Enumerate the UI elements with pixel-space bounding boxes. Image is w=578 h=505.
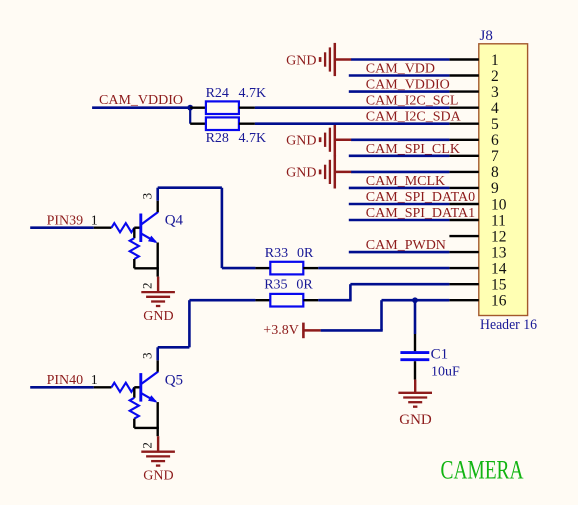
wire CAM_VDDIO <box>92 106 190 109</box>
pin 5 of J8 <box>449 116 499 133</box>
pin 1 of Q4 (base) <box>94 226 112 228</box>
pin 7 of J8 <box>449 148 499 165</box>
wire PIN40 <box>30 386 93 389</box>
svg-text:0R: 0R <box>297 246 314 261</box>
wire junction to C1 <box>414 300 417 334</box>
pin 16 of J8 <box>449 293 506 310</box>
svg-text:2: 2 <box>139 442 154 449</box>
pin 13 of J8 <box>449 244 506 261</box>
wire pin13 net CAM_PWDN <box>349 251 450 254</box>
base stub of Q5 <box>134 386 139 388</box>
svg-text:GND: GND <box>399 412 432 428</box>
power ground GND (pin 8) <box>286 155 351 188</box>
base resistor zigzag of Q4 <box>112 223 135 232</box>
ground symbol below Q5 <box>141 436 175 483</box>
wire R33 to pin14 <box>318 267 449 270</box>
pin 3 of Q5 (collector) <box>156 360 158 371</box>
svg-text:4.7K: 4.7K <box>239 131 267 146</box>
pin 1 of R33 <box>255 267 270 269</box>
svg-text:Q4: Q4 <box>165 213 184 229</box>
pin 2 of Q5 (emitter) <box>156 402 158 436</box>
resistor R33 <box>270 262 303 275</box>
svg-text:R33: R33 <box>265 246 288 261</box>
base stub of Q4 <box>134 226 139 228</box>
resistor R28 <box>206 117 239 130</box>
wire R28 to pin5 net CAM_I2C_SDA <box>255 122 450 125</box>
pin 9 of J8 <box>449 180 499 197</box>
resistor R24 <box>206 101 239 114</box>
pin 6 of J8 <box>449 132 499 149</box>
wire PIN39 <box>30 226 93 229</box>
svg-text:R24: R24 <box>206 86 229 101</box>
svg-text:8: 8 <box>491 164 499 181</box>
resistor R35 <box>270 294 303 307</box>
power ground GND (pin 1) <box>286 43 351 76</box>
svg-text:CAM_VDDIO: CAM_VDDIO <box>99 93 183 108</box>
wire pin9 net CAM_MCLK <box>349 187 450 190</box>
svg-text:GND: GND <box>143 309 173 324</box>
svg-text:3: 3 <box>140 193 155 200</box>
bottom link wire of Q5 <box>134 427 159 429</box>
svg-text:GND: GND <box>286 166 316 181</box>
pin 15 of J8 <box>449 277 506 294</box>
svg-text:CAMERA: CAMERA <box>441 455 524 484</box>
pin 1 of C1 <box>414 334 416 351</box>
svg-text:R28: R28 <box>206 131 229 146</box>
svg-text:GND: GND <box>286 53 316 68</box>
svg-text:PIN39: PIN39 <box>47 213 84 228</box>
wire R24 to pin4 net CAM_I2C_SCL <box>255 106 450 109</box>
wire pin8 to GND <box>351 171 449 174</box>
wire pin16 row <box>382 299 450 302</box>
svg-text:3: 3 <box>491 84 499 101</box>
pin 10 of J8 <box>449 196 506 213</box>
pull-down stub of Q4 <box>133 228 135 239</box>
power port +3.8V <box>263 323 320 339</box>
ground symbol below C1 <box>398 380 432 428</box>
svg-text:CAM_PWDN: CAM_PWDN <box>366 238 446 253</box>
wire junction down to R28 <box>189 108 191 124</box>
pin 3 of J8 <box>449 84 499 101</box>
svg-text:12: 12 <box>491 228 507 245</box>
pin 2 of C1 <box>414 361 416 379</box>
wire pin2 net CAM_VDD <box>349 74 450 77</box>
svg-text:+3.8V: +3.8V <box>263 323 299 338</box>
zigzag to bottom stub of Q4 <box>133 259 135 268</box>
pin 2 of R35 <box>303 299 318 301</box>
connector J8 body <box>479 44 528 316</box>
svg-text:7: 7 <box>491 148 499 165</box>
svg-text:R35: R35 <box>264 278 287 293</box>
svg-text:0R: 0R <box>296 278 313 293</box>
transistor Q5 <box>141 372 158 403</box>
wire pin6 to GND <box>351 139 449 142</box>
svg-text:1: 1 <box>491 52 499 69</box>
wire R35 right <box>318 299 350 302</box>
pin 2 of R28 <box>239 122 255 124</box>
pin 11 of J8 <box>449 212 506 229</box>
svg-text:16: 16 <box>491 293 507 310</box>
base-emitter resistor zigzag of Q4 <box>130 238 139 259</box>
svg-text:J8: J8 <box>480 28 493 44</box>
wire pin7 net CAM_SPI_CLK <box>349 155 450 158</box>
collector wire of Q5 <box>158 300 256 360</box>
wire to pin15 <box>350 283 449 286</box>
pin 1 of J8 <box>449 52 498 69</box>
svg-text:C1: C1 <box>431 347 449 363</box>
capacitor C1 <box>400 353 429 360</box>
wire pin1 to GND <box>351 58 449 61</box>
pin 2 of Q4 (emitter) <box>156 243 158 277</box>
svg-text:2: 2 <box>139 283 154 290</box>
zigzag to bottom stub of Q5 <box>133 419 135 428</box>
svg-text:10: 10 <box>491 196 507 213</box>
svg-text:CAM_MCLK: CAM_MCLK <box>366 174 445 189</box>
svg-text:1: 1 <box>91 213 98 228</box>
svg-text:CAM_VDDIO: CAM_VDDIO <box>366 78 450 93</box>
svg-text:5: 5 <box>491 116 499 133</box>
svg-text:CAM_SPI_CLK: CAM_SPI_CLK <box>366 142 460 157</box>
wire +3.8V row <box>321 329 383 332</box>
power ground GND (pin 6) <box>286 123 351 156</box>
ground symbol below Q4 <box>141 277 175 324</box>
wire pin11 net CAM_SPI_DATA1 <box>349 219 450 222</box>
pin 2 of R24 <box>239 106 255 108</box>
svg-text:PIN40: PIN40 <box>47 373 84 388</box>
svg-text:GND: GND <box>286 134 316 149</box>
svg-text:2: 2 <box>491 68 499 85</box>
svg-text:GND: GND <box>143 469 173 484</box>
svg-text:3: 3 <box>140 353 155 360</box>
svg-text:15: 15 <box>491 277 507 294</box>
wire pin3 net CAM_VDDIO <box>349 90 450 93</box>
svg-text:CAM_SPI_DATA0: CAM_SPI_DATA0 <box>366 190 475 205</box>
wire down to +3.8V row <box>380 300 383 330</box>
svg-text:1: 1 <box>91 373 98 388</box>
wire jog up to pin15 <box>349 284 352 301</box>
bottom link wire of Q4 <box>134 267 159 269</box>
svg-text:4: 4 <box>491 100 499 117</box>
svg-text:9: 9 <box>491 180 499 197</box>
base resistor zigzag of Q5 <box>112 383 135 392</box>
pin 1 of R24 <box>190 106 206 108</box>
pull-down stub of Q5 <box>133 387 135 398</box>
svg-text:CAM_SPI_DATA1: CAM_SPI_DATA1 <box>366 206 475 221</box>
svg-text:Header 16: Header 16 <box>480 317 537 333</box>
pin 4 of J8 <box>449 100 499 117</box>
pin 3 of Q4 (collector) <box>156 201 158 212</box>
transistor Q4 <box>141 212 158 243</box>
base-emitter resistor zigzag of Q5 <box>130 398 139 419</box>
pin 12 of J8 <box>449 228 506 245</box>
collector wire of Q4 <box>158 188 256 268</box>
svg-text:10uF: 10uF <box>431 365 460 380</box>
svg-text:4.7K: 4.7K <box>239 86 267 101</box>
junction node pin16/C1 <box>412 297 418 303</box>
pin 14 of J8 <box>449 260 506 277</box>
pin 1 of R35 <box>255 299 270 301</box>
junction CAM_VDDIO node <box>187 105 193 111</box>
pin 2 of R33 <box>303 267 318 269</box>
svg-text:13: 13 <box>491 244 507 261</box>
svg-text:14: 14 <box>491 260 507 277</box>
svg-text:6: 6 <box>491 132 499 149</box>
svg-text:CAM_VDD: CAM_VDD <box>366 62 435 77</box>
pin 8 of J8 <box>449 164 499 181</box>
wire pin10 net CAM_SPI_DATA0 <box>349 203 450 206</box>
pin 1 of R28 <box>190 122 206 124</box>
svg-text:11: 11 <box>491 212 506 229</box>
svg-text:Q5: Q5 <box>165 372 183 388</box>
pin 1 of Q5 (base) <box>94 386 112 388</box>
pin 2 of J8 <box>449 68 498 85</box>
